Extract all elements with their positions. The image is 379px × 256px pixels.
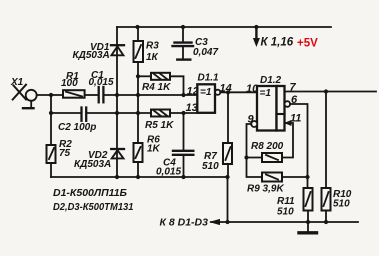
svg-text:0,047: 0,047 [193,47,218,58]
svg-text:100: 100 [61,78,78,89]
wire X1 branch vertical (to R2) [50,95,52,145]
svg-text:D1.1: D1.1 [198,73,220,84]
node R7 on bottom [225,175,229,179]
svg-text:=1: =1 [200,87,212,98]
node K8-R10 [324,220,328,224]
wire bottom common [51,176,228,178]
node VD2 on bottom [115,175,119,179]
node rail-C3 [181,25,185,29]
svg-text:510: 510 [277,207,294,218]
capacitor C4 [173,113,193,177]
capacitor C1 [99,87,104,102]
arrow K8 [209,219,220,225]
svg-text:1К: 1К [146,52,159,63]
diode VD1 [111,45,124,55]
node output/R7 [226,90,230,94]
svg-text:510: 510 [202,161,219,172]
svg-text:13: 13 [186,102,198,114]
node R8 left [244,155,248,159]
svg-text:R4 1K: R4 1K [142,82,171,93]
resistor R11 [304,188,313,222]
node C4 on bottom [181,175,185,179]
node R3line on wire2 [136,111,140,115]
node R4 tap [136,74,140,78]
resistor R7 [223,92,232,177]
node C4 tap on wire2 [181,111,185,115]
node bus on wire2 [115,111,119,115]
gate D1.1 [197,84,220,113]
svg-text:D1.2: D1.2 [260,75,282,86]
resistor R6 [134,143,143,177]
svg-text:К 1,16: К 1,16 [261,37,294,49]
ground [299,222,317,233]
resistor R5 [151,110,170,117]
wire2 C2/R5 line [51,112,81,114]
resistor R2 [47,145,56,163]
svg-text:D2,D3-К500ТМ131: D2,D3-К500ТМ131 [53,201,134,213]
node rail-R3 [135,25,139,29]
wire K8 ground line [211,221,358,223]
node bus on wire1 [115,93,119,97]
resistor R8 [247,123,294,162]
wire K1,16 tap arrow [253,27,260,47]
wire R7 to K8 line [227,177,229,222]
diode VD2 [111,149,124,158]
node R4 tap on wire1 (pin 12 wire) [181,93,185,97]
resistor R3 [134,27,144,62]
connector X1 [13,85,37,109]
svg-text:0,015: 0,015 [89,77,114,88]
node X1-branch on wire1 [49,93,53,97]
svg-text:12: 12 [187,86,199,98]
svg-text:X1: X1 [10,77,24,88]
svg-text:R5 1K: R5 1K [145,120,174,131]
svg-text:R8 200: R8 200 [251,141,284,152]
node R6 on bottom [136,175,140,179]
svg-text:1K: 1K [147,144,161,155]
wire VD1/VD2 left bus vertical [116,27,118,177]
svg-text:КД503А: КД503А [74,159,111,170]
svg-text:К 8 D1-D3: К 8 D1-D3 [160,216,209,228]
node pin7-R10 [324,89,328,93]
resistor R4 [138,73,184,95]
wire R3 line vertical [137,62,139,143]
resistor R1 [63,90,85,98]
node C2 tap [49,111,53,115]
node R3line on wire1 [136,93,140,97]
node R9 right [305,175,309,179]
svg-text:R9 3,9K: R9 3,9K [247,184,284,195]
svg-text:0,015: 0,015 [156,167,181,178]
svg-text:R3: R3 [146,41,159,52]
wire +5V top rail [117,26,331,28]
svg-text:КД503А: КД503А [73,50,110,61]
wire pin 7 output [285,91,377,93]
node rail-K116 [254,25,258,29]
svg-text:D1-К500ЛП11Б: D1-К500ЛП11Б [53,187,128,199]
node K8-R7line [225,220,229,224]
resistor R10 [322,92,331,223]
svg-text:=1: =1 [260,88,272,99]
node K8-R11 [306,220,310,224]
wire main signal (wire1) [37,94,63,96]
svg-text:C2 100p: C2 100p [58,122,96,133]
svg-text:R11: R11 [277,196,295,207]
resistor R9 [262,173,308,182]
capacitor C3 [173,27,194,60]
capacitor C2 [82,108,87,121]
gate D1.2 [251,86,290,131]
wire pin 6 to R9/R11 line [290,104,307,188]
svg-text:+5V: +5V [297,38,318,50]
svg-text:75: 75 [59,148,71,159]
pin 11 clock arrow [284,120,292,126]
wire R2 to bottom [50,163,52,177]
wire pin 9 to R8/R9 [247,124,263,177]
wire D1.1 output to D1.2 pin 10 [220,91,257,93]
svg-text:510: 510 [333,199,350,210]
